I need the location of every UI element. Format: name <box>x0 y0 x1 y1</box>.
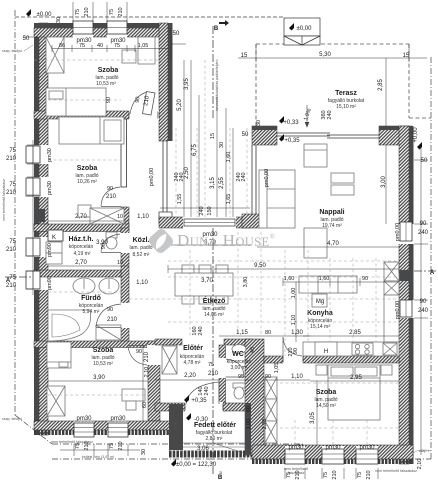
living room sofa <box>259 170 295 228</box>
svg-text:1,00: 1,00 <box>246 419 252 430</box>
front door <box>218 382 220 404</box>
svg-text:1,05: 1,05 <box>138 43 149 49</box>
svg-text:75: 75 <box>75 9 81 15</box>
svg-text:2,85: 2,85 <box>349 330 361 336</box>
svg-text:pm30: pm30 <box>47 148 53 162</box>
kitchen-side door <box>283 337 302 356</box>
svg-text:pm0,00: pm0,00 <box>264 169 270 187</box>
bedroom2 wardrobe <box>90 208 124 224</box>
svg-text:±0,00 = 122,30: ±0,00 = 122,30 <box>176 462 217 468</box>
svg-text:pm90: pm90 <box>47 243 53 257</box>
svg-text:3,05: 3,05 <box>310 412 316 424</box>
svg-text:Szoba: Szoba <box>316 389 337 396</box>
2,85 vertical right of terrace <box>385 58 387 126</box>
bedroom3l dims <box>48 380 148 382</box>
svg-text:19,74 m²: 19,74 m² <box>322 223 342 229</box>
svg-text:45: 45 <box>250 347 256 353</box>
svg-text:50: 50 <box>173 31 180 37</box>
svg-text:nem terhelhető falszakasz: nem terhelhető falszakasz <box>2 179 6 221</box>
svg-text:210: 210 <box>107 317 118 323</box>
bedroom3-right bed <box>328 365 380 420</box>
left block bottom windows <box>74 423 94 437</box>
svg-text:pm0,00: pm0,00 <box>395 301 401 319</box>
svg-text:pm30: pm30 <box>47 181 53 195</box>
svg-text:falszakasz: falszakasz <box>288 471 305 475</box>
svg-text:±0,00: ±0,00 <box>37 12 53 18</box>
svg-text:A: A <box>6 278 11 284</box>
svg-text:2,70: 2,70 <box>75 214 87 220</box>
svg-text:90: 90 <box>420 299 427 305</box>
Házth wc <box>106 232 117 238</box>
svg-text:10: 10 <box>117 260 123 266</box>
kitchen dims <box>303 335 399 337</box>
svg-text:pm30: pm30 <box>359 445 375 451</box>
svg-text:30: 30 <box>56 17 62 23</box>
left block north wall <box>34 28 172 37</box>
svg-text:1,05: 1,05 <box>274 363 280 374</box>
svg-text:nem terhelhető falszakasz: nem terhelhető falszakasz <box>375 469 417 473</box>
svg-text:B: B <box>214 26 219 32</box>
svg-text:pm30: pm30 <box>325 445 341 451</box>
east wall window (floor height) <box>163 141 167 212</box>
svg-text:75: 75 <box>109 443 115 449</box>
right wall windows <box>400 222 412 241</box>
svg-text:60: 60 <box>142 402 148 408</box>
Fürdő south wall <box>34 341 155 348</box>
svg-text:240: 240 <box>241 172 247 181</box>
svg-text:Előtér: Előtér <box>183 345 203 352</box>
svg-text:1,55: 1,55 <box>177 194 183 205</box>
fürdő door <box>96 304 121 327</box>
svg-text:1,60: 1,60 <box>226 152 232 163</box>
svg-text:90: 90 <box>101 243 107 249</box>
right block west wall (WC east / bedroom3r west) <box>245 339 264 455</box>
svg-text:- 1,5 %: - 1,5 % <box>174 422 178 434</box>
svg-text:15: 15 <box>403 53 410 59</box>
svg-text:mBf: mBf <box>219 471 223 477</box>
entrance box top <box>284 18 320 45</box>
porch west dark wall <box>169 404 183 450</box>
svg-text:Terasz: Terasz <box>335 90 357 97</box>
svg-text:-0,30: -0,30 <box>194 417 208 423</box>
svg-text:Szoba: Szoba <box>93 347 114 354</box>
svg-text:15: 15 <box>241 53 248 59</box>
bedroom3-left desk <box>122 389 145 401</box>
4,70 living dim <box>257 246 399 248</box>
svg-text:+0,33: +0,33 <box>283 120 299 126</box>
svg-text:lam. padló: lam. padló <box>129 245 152 251</box>
svg-text:50: 50 <box>23 36 30 42</box>
svg-text:K: K <box>52 235 56 241</box>
svg-text:5,94 m²: 5,94 m² <box>83 309 100 315</box>
svg-text:15,14 m²: 15,14 m² <box>310 324 330 330</box>
svg-text:1,15: 1,15 <box>236 330 248 336</box>
svg-text:8,52 m²: 8,52 m² <box>133 252 150 258</box>
3,70 dim <box>168 244 251 246</box>
svg-text:10: 10 <box>117 214 123 220</box>
bedroom2 bed <box>59 117 124 144</box>
svg-text:Ház.t.h.: Ház.t.h. <box>69 236 94 243</box>
DOORS <box>96 92 302 405</box>
svg-text:240: 240 <box>418 308 429 314</box>
svg-text:3,90: 3,90 <box>93 375 105 381</box>
reference dashed projection lines <box>34 60 399 448</box>
svg-text:240: 240 <box>179 172 185 181</box>
svg-text:240: 240 <box>199 206 205 215</box>
Fürdő shower <box>96 325 121 340</box>
right side long chain <box>420 147 422 455</box>
svg-text:210: 210 <box>288 347 294 356</box>
bedroom3-left east wall <box>148 341 160 421</box>
svg-text:75: 75 <box>9 182 16 188</box>
svg-text:nem terhelhető falszakasz: nem terhelhető falszakasz <box>51 440 93 444</box>
svg-text:1,00: 1,00 <box>291 288 297 299</box>
svg-text:±0,00: ±0,00 <box>297 26 313 32</box>
svg-text:75: 75 <box>9 239 16 245</box>
svg-text:köporcelán: köporcelán <box>69 244 94 250</box>
svg-text:3,15: 3,15 <box>210 177 216 189</box>
svg-text:Szoba: Szoba <box>77 165 98 172</box>
svg-text:3,80: 3,80 <box>243 277 249 288</box>
svg-text:Szoba: Szoba <box>98 67 119 74</box>
svg-text:210: 210 <box>366 470 372 479</box>
Előtér / WC north wall <box>155 339 182 345</box>
bedroom1 bed <box>46 88 106 116</box>
svg-text:WC: WC <box>232 351 244 358</box>
svg-text:pm30: pm30 <box>288 445 304 451</box>
svg-text:1,10: 1,10 <box>136 280 148 286</box>
svg-text:210: 210 <box>106 194 117 200</box>
bedroom1 interior dim <box>52 48 168 50</box>
WC sink <box>232 345 246 354</box>
bedroom1 door <box>130 92 147 114</box>
svg-text:1,10: 1,10 <box>291 374 303 380</box>
left block west wall <box>39 23 48 435</box>
terrace slope arrow <box>305 105 309 127</box>
Fürdő sinks <box>73 278 95 294</box>
Előtér wardrobe <box>162 346 177 374</box>
svg-text:75: 75 <box>109 9 115 15</box>
svg-text:210: 210 <box>6 247 17 253</box>
svg-text:H: H <box>324 349 328 355</box>
right block south wall <box>252 445 413 459</box>
svg-text:50: 50 <box>421 158 428 164</box>
svg-text:30: 30 <box>219 142 225 148</box>
porch steps <box>183 443 250 455</box>
bedroom1 wardrobe <box>46 37 64 73</box>
Házth washer boxes <box>46 242 62 253</box>
terrace 5,30 dim <box>256 57 409 59</box>
svg-text:csap. lefolyó: csap. lefolyó <box>2 417 22 421</box>
svg-text:Fedett előtér: Fedett előtér <box>194 422 236 429</box>
top wall windows <box>73 21 93 34</box>
svg-text:15,10 m²: 15,10 m² <box>336 104 356 110</box>
flue block <box>399 270 412 281</box>
svg-text:75: 75 <box>9 275 16 281</box>
svg-text:75: 75 <box>208 362 214 368</box>
svg-text:75: 75 <box>323 472 329 478</box>
svg-text:2,20: 2,20 <box>184 373 196 379</box>
svg-text:csap. lefolyó: csap. lefolyó <box>2 49 22 53</box>
svg-text:2,10: 2,10 <box>417 459 423 470</box>
bedroom2 east thin wall <box>121 119 127 187</box>
svg-text:+0,35: +0,35 <box>284 138 300 144</box>
svg-text:2,20: 2,20 <box>262 419 268 430</box>
bedroom3r dims <box>310 380 399 382</box>
svg-text:pm30: pm30 <box>110 416 126 422</box>
svg-text:pm0,00: pm0,00 <box>149 168 155 186</box>
svg-text:75: 75 <box>357 472 363 478</box>
bedroom3-left wardrobe <box>47 386 65 416</box>
svg-text:210: 210 <box>332 470 338 479</box>
svg-text:90: 90 <box>135 96 142 103</box>
svg-text:90: 90 <box>265 374 271 380</box>
bedroom1 desk + stool <box>138 37 155 64</box>
kitchen / bedroom3r wall <box>264 356 399 363</box>
házth door <box>101 234 120 252</box>
living chair top <box>304 144 327 167</box>
svg-text:Konyha: Konyha <box>307 310 333 317</box>
svg-text:2,70: 2,70 <box>75 260 87 266</box>
svg-text:pm30: pm30 <box>76 416 92 422</box>
svg-text:1,30: 1,30 <box>291 330 303 336</box>
svg-text:9,50: 9,50 <box>254 263 266 269</box>
svg-text:Közl.: Közl. <box>133 237 150 244</box>
svg-text:240: 240 <box>418 230 429 236</box>
svg-text:90: 90 <box>107 186 113 192</box>
bedroom3-left door <box>128 346 147 365</box>
svg-text:210: 210 <box>6 156 17 162</box>
svg-text:240: 240 <box>327 110 333 119</box>
B arrow top <box>219 20 229 26</box>
living room west window <box>252 145 256 214</box>
svg-text:4,78 m²: 4,78 m² <box>184 360 201 366</box>
svg-text:1,10: 1,10 <box>291 315 297 326</box>
svg-text:15: 15 <box>210 133 216 139</box>
svg-text:csap. l: csap. l <box>419 449 430 453</box>
WATERMARK <box>147 227 276 255</box>
svg-text:10,53 m²: 10,53 m² <box>93 361 113 367</box>
svg-text:Fürdő: Fürdő <box>81 295 101 302</box>
svg-text:pm30: pm30 <box>110 38 126 44</box>
svg-text:80: 80 <box>265 330 271 336</box>
svg-text:90: 90 <box>107 307 113 313</box>
svg-text:3,00 m²: 3,00 m² <box>231 365 248 371</box>
svg-text:+0,35: +0,35 <box>191 398 207 404</box>
niche south wall (közl north wall) <box>159 217 251 228</box>
svg-text:pm90: pm90 <box>47 276 53 290</box>
svg-text:+0,00: +0,00 <box>413 127 419 143</box>
svg-text:210: 210 <box>118 7 124 16</box>
interior 9,50 line <box>168 268 399 270</box>
3,00 living east <box>385 145 387 224</box>
svg-text:210: 210 <box>144 351 150 362</box>
WC toilet <box>233 383 245 388</box>
living armchairs <box>331 173 354 183</box>
svg-text:6,75: 6,75 <box>192 144 198 156</box>
top-left verticals above windows <box>72 2 74 22</box>
K chimney box <box>48 230 63 241</box>
mid wall between Házth/Fürdő and Közl <box>121 228 129 343</box>
svg-text:pm30: pm30 <box>76 38 92 44</box>
kitchen south counter <box>303 342 399 356</box>
svg-text:90: 90 <box>420 221 427 227</box>
svg-text:10,26 m²: 10,26 m² <box>77 179 97 185</box>
dining bottom dims <box>219 335 310 337</box>
left side chain <box>32 140 34 295</box>
svg-text:150: 150 <box>207 206 213 215</box>
svg-text:1,65: 1,65 <box>226 194 232 205</box>
svg-text:pm0,00: pm0,00 <box>395 223 401 241</box>
west wall window gaps <box>33 145 49 290</box>
házth dims <box>48 220 129 222</box>
svg-text:30: 30 <box>256 120 262 126</box>
svg-text:210: 210 <box>84 7 90 16</box>
bedroom1 south wall <box>34 111 159 119</box>
left block east wall (upper, niche side) <box>159 23 168 141</box>
svg-text:30: 30 <box>141 449 147 455</box>
svg-text:14,06 m²: 14,06 m² <box>204 312 224 318</box>
svg-text:1,10: 1,10 <box>137 214 149 220</box>
svg-text:tervezett kialakítás padlásfel: tervezett kialakítás padlásfeljáró <box>215 59 219 110</box>
bedroom3-right wardrobe column <box>265 377 277 399</box>
svg-text:Nappali: Nappali <box>319 209 344 216</box>
svg-text:3,00: 3,00 <box>381 176 387 188</box>
bedroom2 south wall <box>34 224 129 232</box>
WC door <box>226 359 244 377</box>
svg-text:240: 240 <box>204 386 210 395</box>
bedroom2 door <box>101 187 120 206</box>
bedroom3-left bed <box>47 342 71 368</box>
svg-text:40: 40 <box>97 43 103 49</box>
right block north pillars <box>252 126 277 145</box>
svg-text:50: 50 <box>242 132 249 138</box>
svg-text:3,95: 3,95 <box>184 78 190 90</box>
porch south dark band <box>169 451 258 458</box>
svg-text:90: 90 <box>362 276 368 282</box>
svg-text:Étkező: Étkező <box>203 296 226 305</box>
svg-text:Mg: Mg <box>316 299 324 305</box>
coffee table <box>304 228 327 258</box>
svg-text:60: 60 <box>246 406 252 412</box>
Előtér south wall w/ front door gap <box>155 403 252 411</box>
svg-text:3,70: 3,70 <box>201 278 213 284</box>
svg-text:1,60: 1,60 <box>319 276 330 282</box>
svg-text:építési hely (3,00 m): építési hely (3,00 m) <box>82 455 115 459</box>
terrace dashed outline <box>256 44 431 126</box>
svg-text:2,10: 2,10 <box>144 367 150 378</box>
svg-text:2,85: 2,85 <box>378 79 384 91</box>
svg-text:A: A <box>430 270 435 276</box>
WALLS <box>33 22 414 465</box>
svg-text:5,30: 5,30 <box>319 52 331 58</box>
west stub wall <box>242 214 264 228</box>
svg-text:90: 90 <box>106 97 112 103</box>
svg-text:86: 86 <box>59 43 65 49</box>
svg-text:14,50 m²: 14,50 m² <box>316 403 336 409</box>
niche vertical dim chains <box>183 60 185 217</box>
svg-text:240: 240 <box>198 326 204 335</box>
FURNITURE <box>46 37 399 443</box>
dining table <box>175 273 233 296</box>
svg-text:1,60: 1,60 <box>284 276 295 282</box>
bedroom2 small table <box>78 205 91 217</box>
svg-text:210: 210 <box>118 441 124 450</box>
svg-text:5,20: 5,20 <box>177 99 183 111</box>
svg-text:4,19 m²: 4,19 m² <box>74 251 91 257</box>
svg-text:10,53 m²: 10,53 m² <box>96 81 116 87</box>
kitchen island <box>299 276 357 293</box>
Házth / Fürdő wall <box>34 270 121 277</box>
ROOM LABELS <box>52 67 365 442</box>
svg-text:210: 210 <box>208 371 219 377</box>
Fürdő corner bath <box>48 310 91 341</box>
right block bottom windows <box>285 449 305 464</box>
left block south wall <box>34 421 182 430</box>
right block east wall <box>399 126 409 464</box>
nightstands <box>316 365 327 375</box>
terrace sliding door <box>277 133 380 138</box>
WC west wall <box>219 345 226 411</box>
svg-text:75: 75 <box>9 148 16 154</box>
svg-text:2,95: 2,95 <box>350 375 362 381</box>
svg-text:2,55: 2,55 <box>219 177 225 189</box>
west wall windows <box>26 146 40 163</box>
svg-text:3,06: 3,06 <box>197 446 209 452</box>
svg-text:210: 210 <box>6 190 17 196</box>
svg-text:90: 90 <box>136 349 142 355</box>
svg-text:4,70: 4,70 <box>327 241 339 247</box>
svg-text:2,80 m²: 2,80 m² <box>206 436 223 442</box>
kitchen east counters <box>384 262 399 281</box>
bottom chains <box>73 444 75 456</box>
svg-text:95: 95 <box>238 374 244 380</box>
